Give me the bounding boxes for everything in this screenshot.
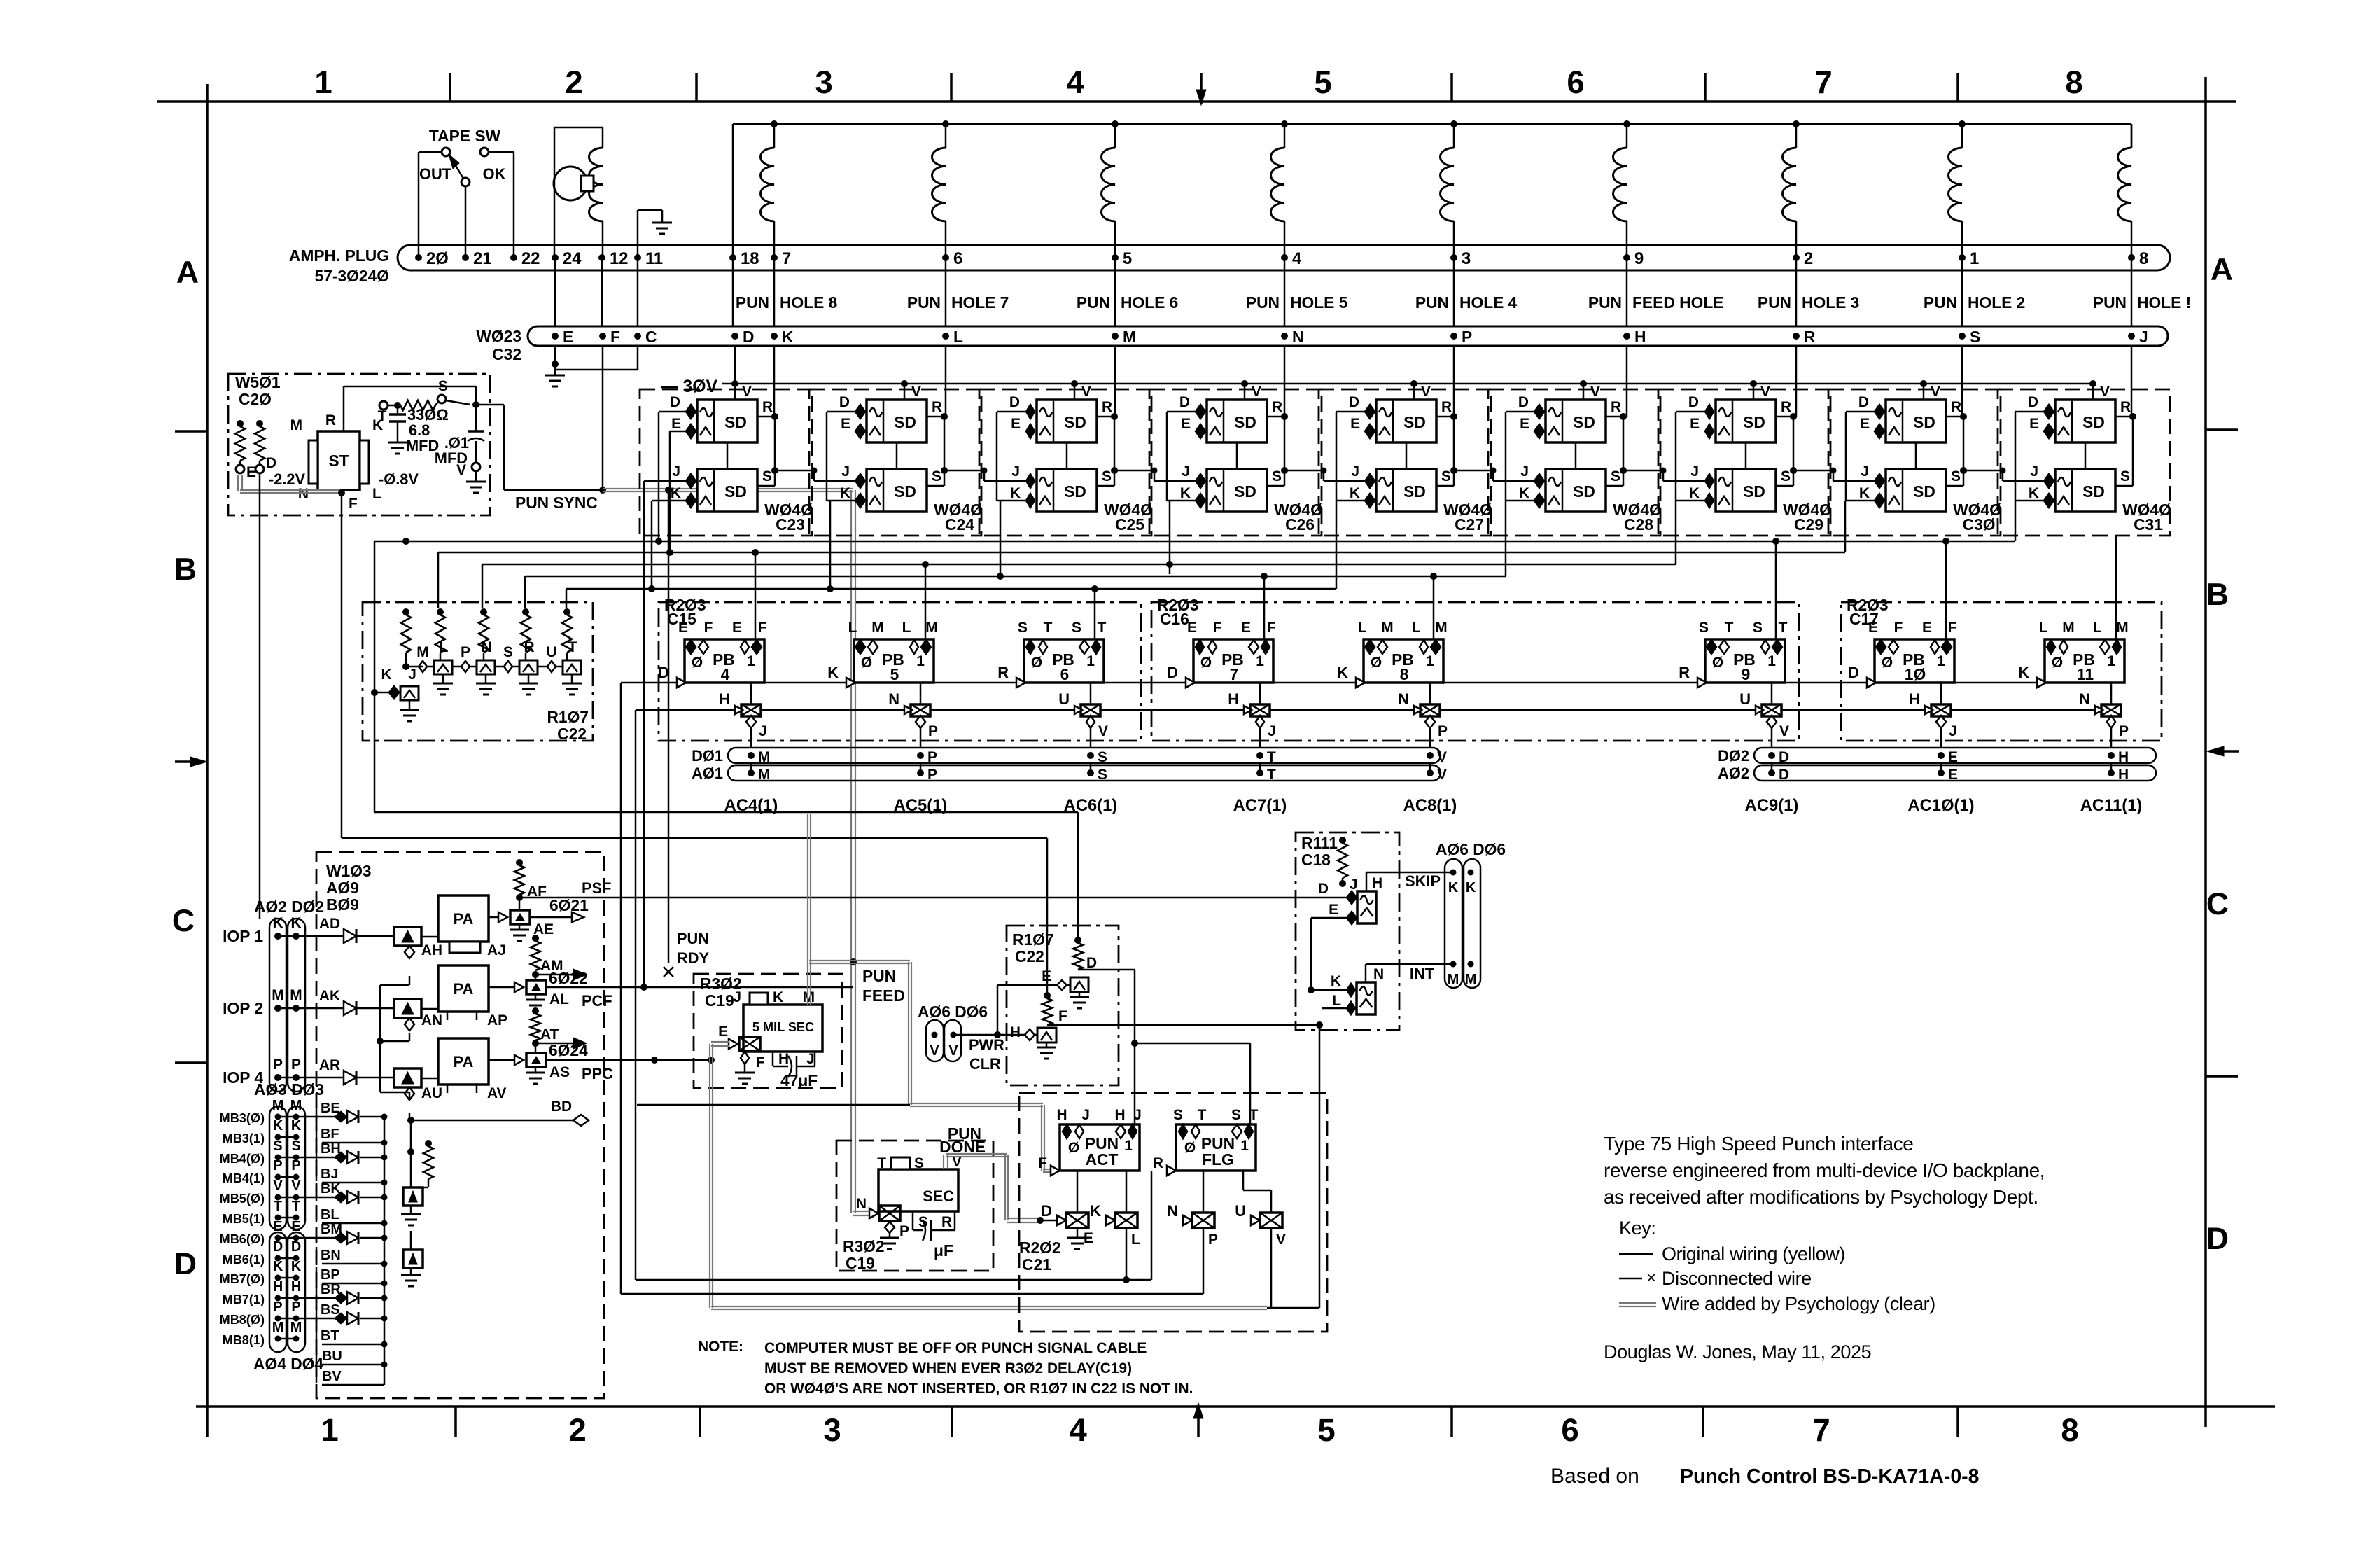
cable A02 D02 connector xyxy=(254,898,324,1092)
svg-text:J: J xyxy=(1133,1107,1142,1123)
slave driver SD upper C3Ø xyxy=(1858,380,1963,442)
svg-text:V: V xyxy=(1779,723,1789,739)
diode gate R107 K J xyxy=(371,667,419,721)
pulse gate H (AC10) xyxy=(1909,683,1956,748)
svg-text:1: 1 xyxy=(321,1412,338,1448)
connector AMPH. PLUG 57-30240 xyxy=(289,245,2170,285)
wire C3Ø inputs xyxy=(1790,412,1875,501)
svg-text:Ø: Ø xyxy=(1031,655,1042,671)
svg-text:MB5(1): MB5(1) xyxy=(223,1212,265,1226)
output 6022 PCF xyxy=(489,935,853,1011)
module W040 C24 box xyxy=(809,389,983,536)
svg-text:K: K xyxy=(1859,485,1870,501)
svg-text:K: K xyxy=(273,1259,283,1274)
svg-text:J: J xyxy=(1861,463,1869,480)
amplifier INT driver xyxy=(1308,964,1453,1014)
svg-text:M: M xyxy=(290,1320,302,1335)
svg-text:MB4(1): MB4(1) xyxy=(223,1171,265,1185)
svg-text:L: L xyxy=(2039,620,2048,636)
svg-text:C18: C18 xyxy=(1301,851,1331,869)
slave driver SD lower C24 xyxy=(840,413,948,512)
svg-text:D: D xyxy=(1167,664,1178,681)
svg-text:M: M xyxy=(290,417,302,433)
module W040 C29 box xyxy=(1658,389,1832,536)
svg-text:M: M xyxy=(1123,328,1136,346)
svg-text:6Ø21: 6Ø21 xyxy=(549,896,589,914)
svg-text:K: K xyxy=(291,1118,302,1134)
svg-text:S: S xyxy=(1231,1107,1241,1123)
flip-flop PUN ACT xyxy=(1038,1107,1142,1176)
svg-text:PUN: PUN xyxy=(677,930,709,947)
svg-text:Original wiring (yellow): Original wiring (yellow) xyxy=(1662,1243,1845,1264)
svg-text:AØ6 DØ6: AØ6 DØ6 xyxy=(1436,840,1506,858)
svg-text:F: F xyxy=(758,620,767,636)
svg-text:T: T xyxy=(1098,620,1107,636)
resistor R107 cell 1 xyxy=(401,608,411,667)
wire disconnected PUN RDY xyxy=(664,487,709,977)
svg-text:PUN: PUN xyxy=(1588,293,1622,312)
wire module drops to trunks xyxy=(830,501,1173,589)
svg-text:2: 2 xyxy=(1804,249,1813,268)
svg-text:C29: C29 xyxy=(1794,515,1823,534)
slave driver SD lower C3Ø xyxy=(1859,413,1967,512)
svg-text:H: H xyxy=(1114,1107,1125,1123)
wire trunk T3 xyxy=(482,501,1676,608)
svg-text:BJ: BJ xyxy=(321,1166,338,1182)
svg-text:H: H xyxy=(1010,1024,1021,1040)
svg-text:C23: C23 xyxy=(776,515,805,534)
svg-text:D: D xyxy=(839,394,850,410)
svg-text:R3Ø2: R3Ø2 xyxy=(843,1237,885,1255)
svg-text:H: H xyxy=(291,1279,301,1295)
svg-text:D: D xyxy=(1858,394,1869,410)
svg-text:Ø: Ø xyxy=(2052,655,2063,671)
svg-text:4: 4 xyxy=(721,665,730,683)
svg-text:K: K xyxy=(1519,485,1529,501)
resistor R107 cell 3 xyxy=(479,608,489,667)
svg-text:PUN: PUN xyxy=(862,967,896,985)
ground near pin 11 xyxy=(638,210,672,258)
wire trunk T1 xyxy=(374,501,2015,812)
svg-text:Ø: Ø xyxy=(1882,655,1893,671)
svg-text:R: R xyxy=(1679,664,1690,681)
flip-flop PB 5 xyxy=(827,620,937,688)
one-shot SEC xyxy=(877,1155,958,1211)
svg-text:BF: BF xyxy=(321,1127,339,1142)
svg-text:D: D xyxy=(1179,394,1190,410)
svg-text:K: K xyxy=(840,485,850,501)
svg-text:L: L xyxy=(848,620,857,636)
svg-text:J: J xyxy=(759,723,767,739)
wire PUN SYNC xyxy=(476,405,603,512)
svg-text:PUN: PUN xyxy=(1077,293,1110,312)
svg-text:AC11(1): AC11(1) xyxy=(2080,796,2143,815)
svg-text:E: E xyxy=(1520,416,1529,432)
svg-text:1Ø: 1Ø xyxy=(1905,665,1926,683)
svg-text:4: 4 xyxy=(1066,64,1084,100)
svg-text:D: D xyxy=(1009,394,1020,410)
svg-text:5: 5 xyxy=(890,665,899,683)
svg-text:K: K xyxy=(291,1259,302,1274)
svg-text:PUN: PUN xyxy=(736,293,769,312)
svg-text:-Ø.8V: -Ø.8V xyxy=(379,470,419,488)
svg-text:DØ1: DØ1 xyxy=(692,747,723,765)
wire trunk T5 xyxy=(566,501,1336,608)
svg-text:E: E xyxy=(2029,416,2039,432)
svg-text:— 3ØV: — 3ØV xyxy=(661,377,717,396)
svg-text:HOLE 2: HOLE 2 xyxy=(1968,293,2025,312)
PUN HOLE labels xyxy=(736,293,2191,312)
svg-text:A: A xyxy=(2211,253,2233,287)
svg-text:AP: AP xyxy=(487,1012,507,1029)
svg-text:18: 18 xyxy=(741,249,759,268)
svg-text:C3Ø: C3Ø xyxy=(1963,515,1996,534)
svg-text:BN: BN xyxy=(321,1248,341,1263)
svg-text:E: E xyxy=(1329,902,1338,918)
svg-text:C24: C24 xyxy=(945,515,974,534)
svg-text:E: E xyxy=(732,620,742,636)
module W040 C28 box xyxy=(1488,389,1662,536)
svg-text:K: K xyxy=(1331,973,1341,989)
svg-text:V: V xyxy=(1081,384,1091,400)
svg-text:K: K xyxy=(1180,485,1191,501)
svg-text:E: E xyxy=(1948,767,1958,783)
svg-text:F: F xyxy=(1213,620,1222,636)
svg-text:N: N xyxy=(2079,690,2090,708)
svg-text:CLR: CLR xyxy=(969,1055,1001,1073)
svg-text:8: 8 xyxy=(2061,1412,2078,1448)
svg-text:M: M xyxy=(272,1098,284,1113)
svg-text:R: R xyxy=(1102,399,1112,415)
svg-text:C21: C21 xyxy=(1022,1255,1051,1274)
svg-text:E: E xyxy=(1350,416,1360,432)
module R202 C21 box xyxy=(1019,1093,1327,1332)
svg-text:M: M xyxy=(272,1320,284,1335)
svg-text:F: F xyxy=(349,496,358,512)
pulse gate H (AC7) xyxy=(1228,683,1275,748)
svg-text:HOLE !: HOLE ! xyxy=(2137,293,2191,312)
svg-text:HOLE 5: HOLE 5 xyxy=(1290,293,1348,312)
wire PB outputs up to trunks xyxy=(755,536,2116,639)
svg-text:AC4(1): AC4(1) xyxy=(724,796,778,815)
svg-text:7: 7 xyxy=(1230,665,1239,683)
wire W501 F down xyxy=(338,489,345,838)
svg-text:MB4(Ø): MB4(Ø) xyxy=(220,1152,265,1166)
svg-text:AC9(1): AC9(1) xyxy=(1745,796,1799,815)
svg-text:μF: μF xyxy=(934,1241,953,1260)
svg-text:2: 2 xyxy=(565,64,582,100)
svg-text:7: 7 xyxy=(1812,1412,1830,1448)
wire C25 inputs xyxy=(941,412,1025,501)
punch solenoid coil PUN HOLE 4 xyxy=(1441,120,1458,258)
resistor R107 cell 2 xyxy=(435,608,445,667)
svg-text:6: 6 xyxy=(1060,665,1070,683)
resistor clamp D xyxy=(1073,937,1097,971)
svg-text:5: 5 xyxy=(1123,249,1132,268)
capacitor SEC uF xyxy=(913,1211,955,1260)
diode gates R107 M L P N S R U T xyxy=(402,639,582,695)
svg-text:D: D xyxy=(1848,664,1859,681)
svg-text:AL: AL xyxy=(549,991,569,1007)
svg-text:N: N xyxy=(1373,966,1384,982)
slave driver SD lower C23 xyxy=(671,413,778,512)
output 6021 PSF xyxy=(489,859,1342,941)
pulse amplifier PA 1 xyxy=(421,895,506,958)
svg-text:ACT: ACT xyxy=(1086,1150,1119,1169)
svg-text:MB6(Ø): MB6(Ø) xyxy=(220,1232,265,1246)
svg-text:BU: BU xyxy=(322,1348,342,1364)
svg-text:AC7(1): AC7(1) xyxy=(1233,796,1287,815)
module W501 C20 box xyxy=(228,373,490,515)
svg-text:Ø: Ø xyxy=(692,655,703,671)
pulse gate U (AC6) xyxy=(1058,683,1108,748)
svg-text:D: D xyxy=(291,1239,301,1255)
svg-text:T: T xyxy=(1267,749,1276,765)
svg-text:12: 12 xyxy=(610,249,628,268)
svg-text:1: 1 xyxy=(1086,653,1095,669)
svg-text:HOLE 6: HOLE 6 xyxy=(1121,293,1178,312)
cable D02 xyxy=(1718,747,2156,765)
svg-text:SD: SD xyxy=(2082,482,2105,501)
svg-text:4: 4 xyxy=(1069,1412,1087,1448)
row labels left xyxy=(172,256,199,1281)
svg-text:1: 1 xyxy=(314,64,332,100)
svg-text:24: 24 xyxy=(563,249,582,268)
wire feedback K gate xyxy=(636,710,1151,1283)
svg-text:P: P xyxy=(291,1299,300,1315)
module W040 C25 box xyxy=(979,389,1153,536)
module W040 C30 box xyxy=(1828,389,2002,536)
sync pickup lamp and coil xyxy=(554,127,603,258)
pulse gate H (AC4) xyxy=(719,683,766,748)
svg-text:V: V xyxy=(456,462,466,478)
svg-text:IOP 1: IOP 1 xyxy=(223,927,263,945)
svg-text:P: P xyxy=(928,723,938,739)
module R107 C22 box xyxy=(363,602,593,743)
svg-text:H: H xyxy=(719,690,730,708)
ground under W023 E/C xyxy=(545,346,638,386)
svg-text:J: J xyxy=(1351,463,1359,480)
svg-text:U: U xyxy=(1739,690,1751,708)
svg-text:P: P xyxy=(273,1057,283,1073)
svg-text:U: U xyxy=(546,644,556,660)
wire added PUN DONE xyxy=(939,1124,1057,1224)
solenoid common bus xyxy=(733,124,2131,258)
svg-text:W1Ø3: W1Ø3 xyxy=(326,862,372,880)
svg-text:5 MIL SEC: 5 MIL SEC xyxy=(752,1020,814,1034)
wire PWR CLR to gates E and H xyxy=(953,985,1057,1038)
capacitor 47uF xyxy=(773,1051,818,1089)
svg-text:6: 6 xyxy=(1561,1412,1578,1448)
svg-text:C: C xyxy=(2206,887,2229,921)
slave driver SD upper C28 xyxy=(1518,380,1623,442)
slave driver SD upper C23 xyxy=(670,380,775,442)
svg-text:K: K xyxy=(782,328,794,346)
svg-text:AØ2: AØ2 xyxy=(1718,765,1749,782)
input MB5(0) xyxy=(220,1178,388,1206)
border column ticks bottom xyxy=(456,1403,1958,1437)
svg-text:J: J xyxy=(1182,463,1190,480)
svg-text:V: V xyxy=(1098,723,1108,739)
resistor 330 ohm xyxy=(378,378,470,424)
node AC7(1) xyxy=(1233,749,1287,815)
border column ticks top xyxy=(450,73,1958,105)
svg-text:5: 5 xyxy=(1317,1412,1335,1448)
cable A06 D06 SKIP INT xyxy=(1405,840,1506,988)
svg-text:C32: C32 xyxy=(492,345,521,363)
flip-flop PB 7 xyxy=(1167,620,1275,688)
node AC9(1) xyxy=(1745,749,1799,815)
module W040 C26 box xyxy=(1149,389,1323,536)
svg-text:PA: PA xyxy=(454,1053,474,1071)
svg-text:N: N xyxy=(1167,1202,1178,1220)
cable W023 C32 xyxy=(476,326,2168,363)
column labels top xyxy=(314,64,2082,100)
svg-text:E: E xyxy=(1187,620,1197,636)
svg-text:BE: BE xyxy=(321,1101,340,1116)
svg-text:K: K xyxy=(1010,485,1021,501)
wire C27 inputs xyxy=(1281,412,1365,501)
punch solenoid coil PUN HOLE 8 xyxy=(761,120,778,258)
svg-text:R: R xyxy=(997,664,1009,681)
input MB5(1) xyxy=(223,1199,388,1227)
svg-text:D: D xyxy=(1349,394,1359,410)
svg-text:P: P xyxy=(927,749,937,765)
svg-text:F: F xyxy=(1058,1008,1067,1024)
wire long line y=1578 xyxy=(637,1104,910,1106)
svg-text:P: P xyxy=(2119,723,2129,739)
svg-text:AØ1: AØ1 xyxy=(692,765,723,782)
slave driver SD lower C29 xyxy=(1689,413,1797,512)
svg-text:AJ: AJ xyxy=(487,942,506,958)
pulse gate N (AC8) xyxy=(1398,683,1448,748)
pulse gate AN xyxy=(394,999,421,1031)
svg-text:M: M xyxy=(290,987,302,1003)
input MB8(1) xyxy=(223,1320,388,1348)
capacitor 6.8 MFD xyxy=(388,402,439,454)
svg-text:AR: AR xyxy=(319,1057,340,1073)
svg-text:Ø: Ø xyxy=(1200,655,1212,671)
wire W023 F to PUN SYNC xyxy=(599,346,606,494)
svg-text:SD: SD xyxy=(1743,413,1765,431)
svg-text:V: V xyxy=(911,384,921,400)
svg-text:S: S xyxy=(2120,468,2130,484)
svg-text:T: T xyxy=(1044,620,1053,636)
key legend xyxy=(1619,1218,1935,1314)
svg-text:SD: SD xyxy=(1064,482,1086,501)
svg-text:INT: INT xyxy=(1410,965,1435,982)
wire U gate output to INT driver xyxy=(1267,1025,1319,1308)
svg-text:SD: SD xyxy=(1913,413,1935,431)
svg-text:J: J xyxy=(1081,1107,1090,1123)
svg-text:J: J xyxy=(2139,328,2148,346)
svg-text:F: F xyxy=(610,328,620,346)
svg-text:Based on: Based on xyxy=(1550,1465,1639,1488)
svg-text:Type 75 High Speed Punch inter: Type 75 High Speed Punch interface xyxy=(1604,1133,1913,1155)
svg-text:N: N xyxy=(298,486,309,502)
svg-text:R: R xyxy=(1611,399,1621,415)
svg-text:PUN: PUN xyxy=(1924,293,1957,312)
svg-text:J: J xyxy=(806,1051,815,1067)
wire clamp D output xyxy=(1078,970,1250,1124)
resistor MB clamp xyxy=(407,1120,433,1187)
svg-text:T: T xyxy=(1249,1107,1259,1123)
svg-text:E: E xyxy=(718,1024,728,1040)
svg-text:47μF: 47μF xyxy=(780,1071,818,1089)
svg-text:J: J xyxy=(1520,463,1529,480)
svg-text:K: K xyxy=(1337,664,1348,681)
wire added PUN FEED xyxy=(809,961,1051,1172)
diode gate MB clamp xyxy=(401,1187,423,1225)
wire added N input xyxy=(853,1211,869,1215)
capacitor .01 MFD xyxy=(435,401,486,493)
svg-text:B: B xyxy=(174,552,197,587)
svg-text:RDY: RDY xyxy=(677,949,709,967)
svg-text:C16: C16 xyxy=(1160,610,1189,628)
flip-flop PB 10 xyxy=(1848,620,1956,688)
svg-text:K: K xyxy=(773,989,783,1005)
svg-text:J: J xyxy=(1268,723,1276,739)
module R107 C22 lower box xyxy=(1007,926,1119,1085)
svg-text:PA: PA xyxy=(454,980,474,998)
svg-text:H: H xyxy=(273,1279,283,1295)
svg-text:E: E xyxy=(1011,416,1021,432)
svg-text:Key:: Key: xyxy=(1619,1218,1655,1239)
svg-text:V: V xyxy=(1437,767,1447,783)
punch solenoid coil PUN HOLE 7 xyxy=(932,120,950,258)
svg-text:SKIP: SKIP xyxy=(1405,872,1441,890)
svg-text:D: D xyxy=(2206,1222,2229,1256)
svg-text:D: D xyxy=(743,328,754,346)
wire W501 F line to R107 C22 lower xyxy=(342,838,1047,993)
svg-text:M: M xyxy=(758,767,770,783)
svg-text:R1Ø7: R1Ø7 xyxy=(547,708,589,726)
flip-flop PB 11 xyxy=(2018,620,2128,688)
svg-text:E: E xyxy=(1922,620,1932,636)
svg-text:1: 1 xyxy=(2107,653,2115,669)
transformer ST xyxy=(290,412,419,512)
svg-text:SD: SD xyxy=(1913,482,1935,501)
node AC4(1) xyxy=(724,749,778,815)
svg-text:F: F xyxy=(704,620,713,636)
flip-flop PB 9 xyxy=(1679,620,1787,688)
svg-text:ST: ST xyxy=(328,452,349,470)
wire W023 D to -30V rail xyxy=(734,346,736,384)
module R203 C16 box xyxy=(1151,596,1799,741)
svg-text:F: F xyxy=(1948,620,1957,636)
input MB7(1) xyxy=(223,1279,388,1306)
svg-text:E: E xyxy=(678,620,688,636)
svg-text:1: 1 xyxy=(1970,249,1979,268)
svg-text:8: 8 xyxy=(2065,64,2082,100)
wire C23 inputs xyxy=(640,412,686,991)
note text xyxy=(698,1339,1193,1397)
punch solenoid coil PUN HOLE 5 xyxy=(1271,120,1289,258)
module R302 C19 box xyxy=(694,974,842,1088)
svg-text:H: H xyxy=(2118,767,2129,783)
slave driver SD lower C26 xyxy=(1180,413,1288,512)
svg-text:V: V xyxy=(273,1178,283,1194)
svg-text:B: B xyxy=(2206,578,2229,612)
svg-text:PUN: PUN xyxy=(1758,293,1791,312)
border row ticks right xyxy=(2206,430,2239,1076)
svg-text:H: H xyxy=(778,1051,789,1067)
svg-text:BD: BD xyxy=(551,1099,572,1115)
wire ST R to S junction xyxy=(344,386,476,431)
slave driver SD upper C29 xyxy=(1688,380,1793,442)
svg-text:Wire added by Psychology (clea: Wire added by Psychology (clear) xyxy=(1662,1293,1935,1314)
svg-text:R: R xyxy=(1272,399,1282,415)
